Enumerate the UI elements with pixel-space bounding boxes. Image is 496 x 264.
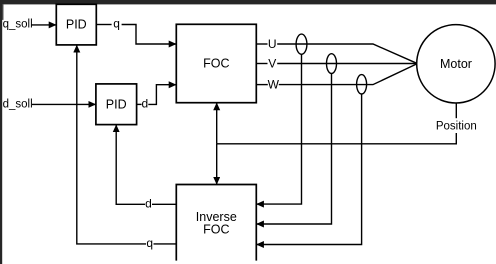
svg-text:PID: PID — [106, 97, 127, 111]
block PID2 — [96, 84, 137, 125]
block PID1 — [56, 4, 96, 45]
wire d feedback stub from Inverse FOC — [152, 203, 176, 205]
block Inverse FOC (bottom edge clipped) — [176, 185, 256, 261]
wire W sensor to Inverse FOC — [256, 94, 361, 245]
wire q to FOC input — [122, 25, 177, 45]
wire motor position drop upper — [455, 103, 457, 118]
wire d feedback to PID2 — [116, 125, 145, 205]
wire d to FOC input — [148, 85, 176, 105]
svg-text:V: V — [268, 57, 276, 71]
wire PID1 out segment before q label — [96, 24, 111, 26]
top chrome bar — [0, 0, 496, 4]
motor circle — [417, 25, 495, 103]
svg-text:q_soll: q_soll — [3, 18, 33, 30]
svg-text:Motor: Motor — [440, 57, 472, 71]
svg-text:q: q — [146, 236, 153, 250]
svg-text:FOC: FOC — [203, 57, 229, 71]
current sensor ellipse U — [296, 34, 307, 54]
left chrome strip — [0, 0, 2, 264]
wire V to motor — [277, 63, 417, 65]
wire q_soll to PID1 — [32, 24, 57, 26]
svg-text:U: U — [268, 37, 277, 51]
wire V stub from FOC — [256, 63, 267, 65]
wire U to motor — [277, 44, 417, 63]
block FOC — [176, 24, 256, 102]
wire PID2 out segment before d label — [137, 103, 142, 105]
svg-text:d: d — [142, 97, 149, 111]
wire V sensor to Inverse FOC — [256, 74, 331, 225]
wire q feedback to PID1 — [77, 45, 146, 244]
wire position to Inverse FOC (arrow down) — [216, 144, 218, 185]
wire d_soll to PID2 — [32, 103, 96, 105]
wire position feedback — [217, 133, 457, 144]
wire U sensor to Inverse FOC — [256, 54, 301, 204]
svg-text:d: d — [145, 197, 152, 211]
svg-text:Position: Position — [436, 121, 477, 133]
svg-text:W: W — [268, 78, 280, 92]
wire position to FOC (arrow up) — [216, 103, 218, 144]
current sensor ellipse V — [327, 54, 337, 74]
svg-text:q: q — [113, 17, 120, 31]
wire q feedback stub from Inverse FOC — [154, 243, 177, 245]
svg-text:d_soll: d_soll — [3, 98, 33, 110]
wire W to motor — [279, 64, 417, 85]
svg-text:PID: PID — [66, 18, 87, 32]
svg-text:FOC: FOC — [203, 223, 229, 237]
current sensor ellipse W — [357, 75, 367, 94]
wire W stub from FOC — [256, 84, 268, 86]
wire U stub from FOC — [256, 43, 267, 45]
corner border remnant — [2, 4, 3, 20]
